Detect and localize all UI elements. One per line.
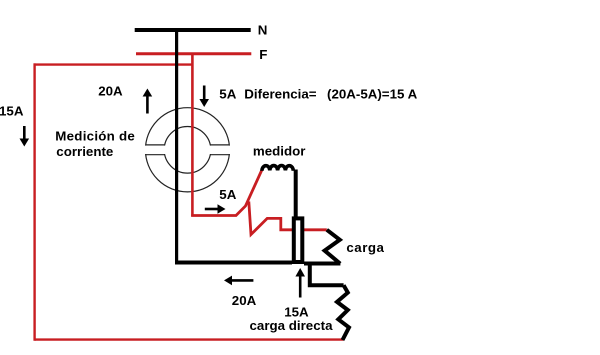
- wire red left vertical: [33, 63, 35, 340]
- svg-text:(20A-5A)=15 A: (20A-5A)=15 A: [327, 87, 418, 102]
- CT left slot: [143, 145, 167, 155]
- wire neutral bottom horizontal: [175, 261, 292, 265]
- svg-text:medidor: medidor: [253, 144, 306, 159]
- meter current coil: [262, 166, 293, 171]
- terminal block rectangle: [294, 218, 303, 262]
- load carga lightning bolt: [325, 230, 341, 264]
- svg-text:carga: carga: [346, 240, 384, 255]
- svg-text:5A: 5A: [219, 87, 236, 102]
- CT right slot: [208, 145, 232, 155]
- wire to direct load vertical: [310, 262, 344, 286]
- busbar N: [135, 28, 251, 32]
- svg-text:15A: 15A: [0, 104, 24, 119]
- wire terminal to load bottom: [304, 262, 340, 266]
- svg-text:20A: 20A: [98, 84, 123, 99]
- svg-text:N: N: [258, 22, 268, 37]
- wire coil to terminal vertical: [294, 170, 298, 219]
- arrow left 20A bottom: [224, 276, 253, 286]
- busbar F: [136, 52, 251, 55]
- load carga directa lightning bolt: [337, 285, 349, 340]
- wire phase branch zigzag to terminal: [249, 202, 327, 235]
- current transformer CT inner ring: [164, 127, 211, 174]
- svg-text:F: F: [259, 47, 267, 62]
- wire red bottom horizontal: [35, 338, 344, 340]
- svg-text:carga directa: carga directa: [250, 318, 334, 333]
- svg-text:20A: 20A: [232, 293, 257, 308]
- current transformer CT outer ring: [145, 108, 229, 192]
- svg-text:5A: 5A: [219, 187, 236, 202]
- wire phase vertical through CT: [191, 54, 194, 217]
- svg-text:Diferencia=: Diferencia=: [244, 87, 316, 102]
- arrow right 5A mid: [205, 204, 226, 214]
- wire phase to meter horizontal: [191, 169, 262, 216]
- arrow up 20A: [143, 89, 153, 114]
- arrow up 15A bottom: [295, 268, 305, 298]
- svg-text:corriente: corriente: [56, 144, 113, 159]
- wire neutral vertical through CT: [175, 30, 178, 263]
- arrow down 5A: [199, 86, 209, 108]
- arrow down 15A left: [20, 126, 30, 147]
- svg-text:Medición de: Medición de: [55, 129, 135, 144]
- wire red branch horizontal: [34, 63, 193, 65]
